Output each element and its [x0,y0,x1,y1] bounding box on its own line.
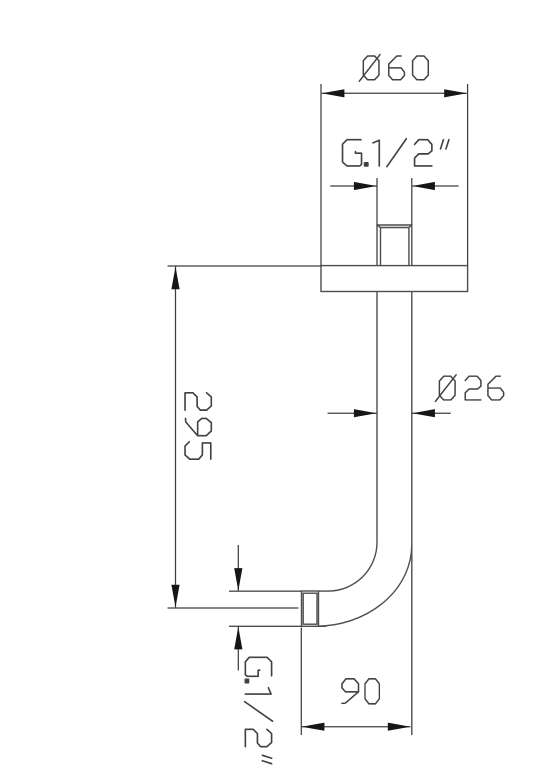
label 295 (rotated) [185,393,211,459]
dimension G.1/2 top [330,178,458,225]
dimension Ø26 [328,412,451,414]
vertical pipe left wall [376,292,378,543]
dimension Ø60 [321,84,468,266]
dimension 90 [301,628,410,736]
horizontal pipe top wall [229,590,329,592]
dimension G.1/2 bottom [237,545,239,670]
bend inner curve [328,542,377,591]
vertical pipe right wall + 90-dim extension (collinear) [411,292,413,736]
label 90 [342,679,379,704]
outlet nipple G1/2 [302,591,319,626]
label Ø26 [435,375,503,402]
top thread nipple G1/2 [377,225,412,266]
dimension 295 [168,266,322,608]
label G.1/2" bottom (rotated) [245,657,273,763]
horizontal pipe bottom wall [229,625,326,627]
wall flange [321,266,468,292]
label Ø60 [359,55,428,82]
label G.1/2" top [343,139,449,167]
bend outer curve [315,545,411,627]
